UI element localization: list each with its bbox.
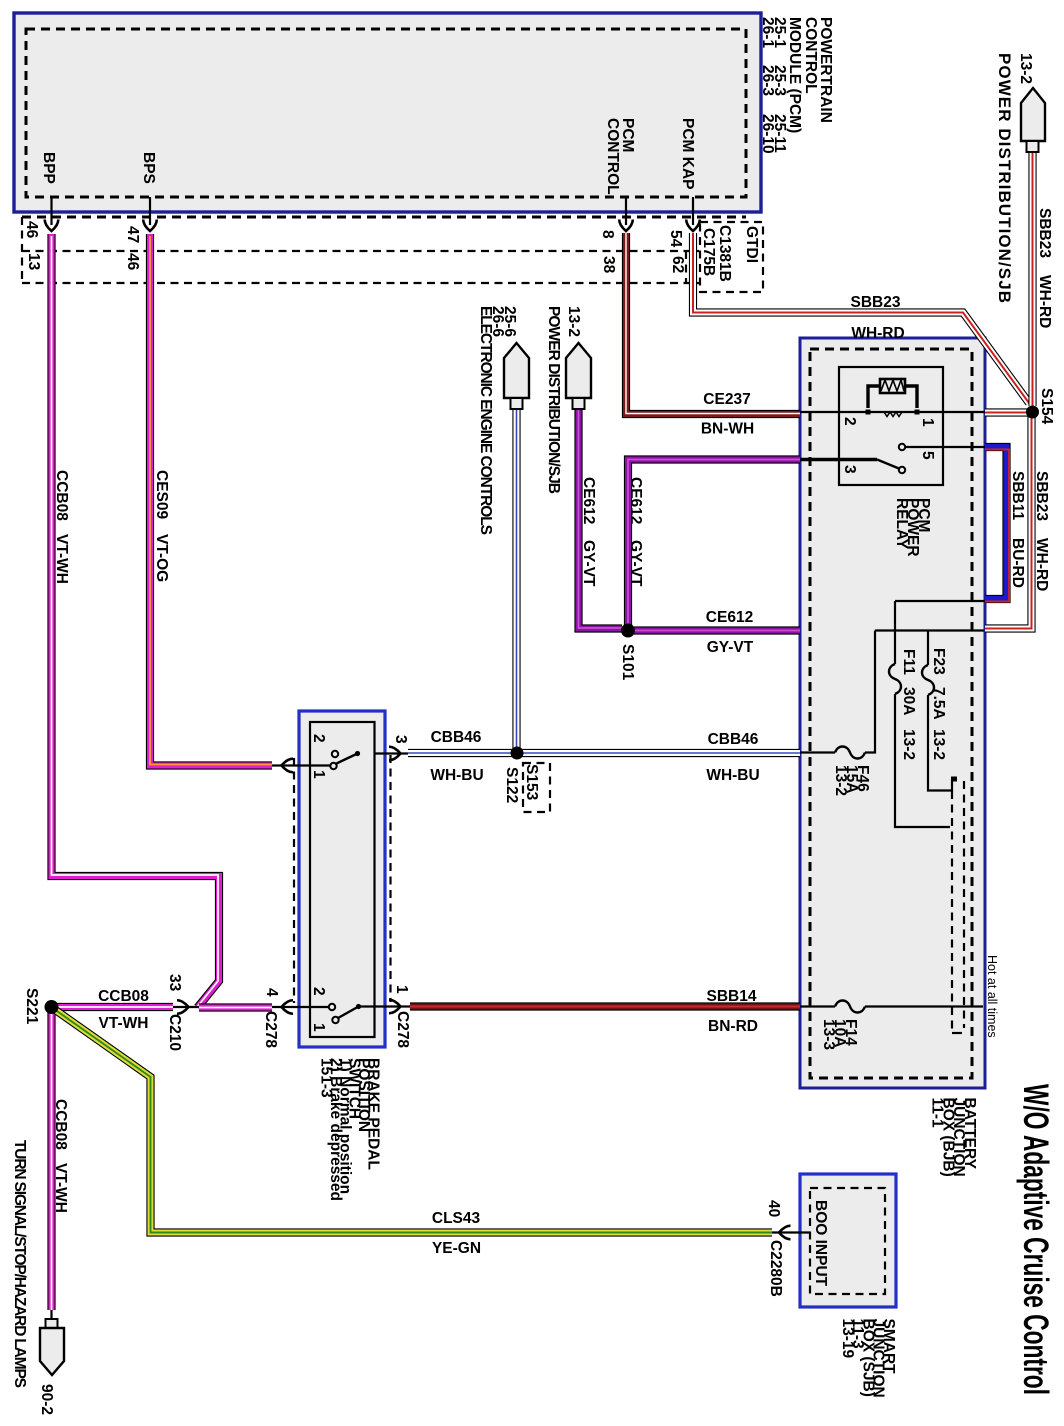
brake switch top contact pin 2 <box>330 751 360 769</box>
svg-text:PCM KAP: PCM KAP <box>679 118 696 189</box>
label BOO INPUT <box>812 1200 829 1287</box>
svg-text:46: 46 <box>124 253 141 271</box>
svg-text:BPS: BPS <box>140 152 157 184</box>
fuse F46 input line <box>800 751 835 753</box>
off-page arrow POWER DISTRIBUTION/SJB mid <box>566 343 591 409</box>
label 90-2 <box>38 1384 55 1415</box>
label 13-2 top right <box>1017 53 1034 84</box>
label 25-6 <box>501 306 518 337</box>
svg-text:13-2: 13-2 <box>1017 53 1034 84</box>
BJB internal bus SBB11 row to fuse F11 <box>895 601 985 664</box>
svg-text:CBB46: CBB46 <box>431 729 482 746</box>
svg-text:C1381B: C1381B <box>716 225 733 282</box>
label CE612 GY-VT right riser <box>627 477 644 587</box>
svg-text:CE237: CE237 <box>703 391 750 408</box>
svg-text:1: 1 <box>919 418 936 427</box>
pin number 46 <box>23 221 40 239</box>
svg-text:33: 33 <box>166 974 183 992</box>
svg-text:13: 13 <box>25 253 42 271</box>
wire SBB23 WH-RD S154 down into BJB <box>985 415 1032 629</box>
svg-text:C2280B: C2280B <box>767 1240 784 1297</box>
svg-text:POWER DISTRIBUTION/SJB: POWER DISTRIBUTION/SJB <box>995 53 1014 303</box>
connector C278 right <box>394 1011 411 1048</box>
splice S153 <box>511 747 524 760</box>
inline connector dashed line C1381B top <box>22 216 746 219</box>
label CES09 VT-OG riser <box>153 470 170 582</box>
svg-text:1: 1 <box>310 770 327 779</box>
pin number 13 <box>25 253 42 271</box>
svg-text:BOO INPUT: BOO INPUT <box>812 1200 829 1287</box>
svg-text:SBB23: SBB23 <box>851 294 901 311</box>
label 26-6 <box>489 306 506 337</box>
svg-text:2: 2 <box>841 417 858 426</box>
label CCB08 VT-WH horizontal <box>98 988 149 1032</box>
connector C2280B <box>767 1240 784 1297</box>
label CBB46 WH-BU right <box>706 731 759 784</box>
svg-text:8: 8 <box>599 230 616 239</box>
svg-text:C278: C278 <box>262 1011 279 1048</box>
pin number 40 <box>765 1200 782 1217</box>
label S101 <box>619 644 636 681</box>
svg-text:13-2: 13-2 <box>832 765 849 796</box>
pin name PCM KAP <box>679 118 696 189</box>
label PCM block <box>759 17 834 154</box>
switch pin number 2 top <box>310 734 327 743</box>
wire CCB08 VT-WH S221 to C210 <box>52 1003 200 1011</box>
pin number 38 <box>600 256 617 274</box>
svg-text:13-2: 13-2 <box>565 306 582 337</box>
switch pin number 1 top <box>310 770 327 779</box>
svg-text:Hot at all times: Hot at all times <box>985 955 999 1038</box>
svg-text:WH-RD: WH-RD <box>851 325 904 342</box>
svg-text:11-1: 11-1 <box>929 1098 946 1129</box>
svg-text:3: 3 <box>392 735 409 744</box>
label S153 <box>523 764 540 801</box>
pin number 46 C1381B <box>124 253 141 271</box>
pin number 33 C210 <box>166 974 183 992</box>
connector arrow C278 pin 1 <box>389 1000 401 1014</box>
pin arrow PCM CONTROL 8 <box>619 220 633 232</box>
relay pin number 1 <box>919 418 936 427</box>
svg-text:1: 1 <box>310 1023 327 1032</box>
connector arrow switch pin 2 <box>282 759 294 773</box>
pin number 8 <box>599 230 616 239</box>
wire CE612 GY-VT S101 right into BJB <box>634 626 800 634</box>
splice S154 <box>1026 406 1039 419</box>
pin arrow BPP 46 <box>45 220 59 232</box>
svg-text:40: 40 <box>765 1200 782 1217</box>
label S221 <box>23 988 40 1025</box>
brake switch bottom contact pin 1 <box>329 1004 361 1023</box>
svg-text:CE612: CE612 <box>706 609 753 626</box>
wire SBB23 WH-RD from PCM KAP pin to S154 <box>693 197 1029 403</box>
label SBB14 BN-RD horizontal <box>707 988 758 1035</box>
label fuse F14 10A 13-3 <box>820 1019 859 1050</box>
wire CCB08 VT-WH S221 down to turn signal lamps <box>47 1007 55 1319</box>
relay coil <box>866 379 920 417</box>
fuse F23 drop <box>927 631 929 666</box>
pin number 62 <box>669 256 686 273</box>
svg-text:S153: S153 <box>523 764 540 801</box>
switch pin number 2 bottom <box>310 987 327 996</box>
label BATTERY JUNCTION BOX (BJB) 11-1 <box>929 1098 978 1177</box>
svg-text:2: 2 <box>310 987 327 996</box>
switch connector dashed line right C278 <box>389 755 391 1002</box>
svg-text:38: 38 <box>600 256 617 274</box>
label S122 <box>503 767 520 803</box>
label POWER DISTRIBUTION/SJB mid <box>545 306 562 494</box>
svg-text:3: 3 <box>841 465 858 474</box>
svg-text:POWER DISTRIBUTION/SJB: POWER DISTRIBUTION/SJB <box>545 306 562 494</box>
powertrain control module (PCM) box <box>14 13 761 212</box>
pin number 47 <box>124 226 141 243</box>
brake pedal position switch box <box>299 711 385 1047</box>
label TURN SIGNAL/STOP/HAZARD LAMPS <box>11 1140 28 1388</box>
label CE237 BN-WH <box>701 391 754 438</box>
relay pin 5 contact and line <box>899 444 985 450</box>
label CCB08 VT-WH lower riser <box>52 1099 69 1213</box>
pin arrow BPS 47 <box>143 220 157 232</box>
splice S221 <box>45 1000 59 1014</box>
svg-text:C175B: C175B <box>700 228 717 276</box>
svg-text:CLS43: CLS43 <box>432 1210 481 1227</box>
svg-text:CONTROL: CONTROL <box>604 118 621 195</box>
relay pin number 2 <box>841 417 858 426</box>
svg-text:WH-BU: WH-BU <box>430 767 483 784</box>
svg-text:YE-GN: YE-GN <box>432 1240 481 1257</box>
pin name BPS <box>140 152 157 184</box>
pin number 4 C278 <box>263 988 280 997</box>
label CE612 GY-VT horizontal <box>706 609 754 656</box>
PCM power relay box <box>839 367 943 485</box>
label CBB46 WH-BU left <box>430 729 483 784</box>
inline connector dashed strip C1381B/C175B <box>22 217 699 283</box>
svg-text:CONTROL: CONTROL <box>802 17 819 94</box>
label BRAKE PEDAL POSITION SWITCH <box>318 1058 382 1201</box>
svg-text:F1130A13-2: F1130A13-2 <box>900 649 917 760</box>
smart junction box BOO INPUT <box>800 1174 896 1307</box>
svg-text:F237.5A13-2: F237.5A13-2 <box>930 648 947 760</box>
label fuse F23 7.5A 13-2 <box>930 648 947 760</box>
wire CCB08 VT-WH from PCM BPP pin <box>52 197 220 1008</box>
connector C210 <box>166 1014 183 1051</box>
dashed corridor hot at all times <box>952 781 964 1033</box>
relay pin number 3 <box>841 465 858 474</box>
fuse F46 15A <box>835 747 865 759</box>
label Hot at all times <box>985 955 999 1038</box>
connector arrow C2280B pin 40 <box>779 1226 791 1240</box>
wire CBB46 WH-BU switch pin 3 to BJB F46 <box>375 752 800 755</box>
svg-text:VT-WH: VT-WH <box>99 1015 149 1032</box>
wire SBB11 BU-RD relay pin 5 loop <box>985 447 1009 602</box>
svg-text:GY-VT: GY-VT <box>707 639 754 656</box>
pin name PCM CONTROL <box>604 118 636 195</box>
off-page arrow ELECTRONIC ENGINE CONTROLS <box>504 343 529 409</box>
svg-text:46: 46 <box>23 221 40 239</box>
fuse F11 output <box>895 694 950 827</box>
svg-text:13-19: 13-19 <box>839 1319 856 1359</box>
label fuse F46 15A 13-2 <box>832 765 871 796</box>
label CLS43 YE-GN horizontal <box>432 1210 481 1257</box>
svg-text:BN-WH: BN-WH <box>701 421 754 438</box>
svg-text:ELECTRONIC ENGINE CONTROLS: ELECTRONIC ENGINE CONTROLS <box>477 306 494 535</box>
label 13-2 mid pentagon <box>565 306 582 337</box>
label fuse F11 30A 13-2 <box>900 649 917 760</box>
svg-text:C210: C210 <box>166 1014 183 1051</box>
svg-text:26-126-326-10: 26-126-326-10 <box>759 17 776 154</box>
relay coil line pins 2 and 1 <box>800 411 985 413</box>
svg-text:SBB14: SBB14 <box>707 988 757 1005</box>
fuse F23 output with hook <box>928 695 957 791</box>
BJB internal bus S154 row y630 <box>875 629 984 631</box>
svg-text:62: 62 <box>669 256 686 273</box>
wire CBB46 WH-BU pentagon down to S153 <box>512 409 520 750</box>
off-page arrow TURN SIGNAL/STOP/HAZARD LAMPS <box>40 1319 64 1375</box>
wire CE237 BN-WH from PCM CONTROL pin to relay coil <box>626 197 800 414</box>
pin number 54 <box>667 230 684 248</box>
wire CES09 VT-OG from PCM BPS pin to switch pin 2 <box>150 197 330 766</box>
title W/O Adaptive Cruise Control <box>1016 1084 1055 1395</box>
svg-text:CCB08: CCB08 <box>98 988 149 1005</box>
svg-text:90-2: 90-2 <box>38 1384 55 1415</box>
splice S153 dashed box <box>523 763 550 812</box>
wire SBB14 BN-RD switch pin 1 to BJB F14 <box>359 1005 801 1007</box>
svg-text:BN-RD: BN-RD <box>708 1018 758 1035</box>
svg-text:5: 5 <box>919 451 936 460</box>
svg-text:BPP: BPP <box>40 152 57 184</box>
svg-text:151-3: 151-3 <box>318 1058 335 1098</box>
splice S101 <box>621 624 635 638</box>
svg-text:CBB46: CBB46 <box>708 731 759 748</box>
fuse F46 output riser <box>865 631 875 753</box>
battery junction box (BJB) <box>800 338 985 1088</box>
pin number 1 C278 right <box>393 985 410 994</box>
fuse F14 input line <box>800 1005 835 1007</box>
svg-text:S101: S101 <box>619 644 636 681</box>
wire WH-RD relay pin1 row to S154 <box>985 408 1029 416</box>
svg-text:WH-BU: WH-BU <box>706 767 759 784</box>
fuse F23 7.5A <box>922 665 934 695</box>
svg-text:W/O Adaptive Cruise Control: W/O Adaptive Cruise Control <box>1016 1084 1055 1395</box>
pin arrow PCM KAP 54 <box>686 220 700 232</box>
switch pin number 1 bottom <box>310 1023 327 1032</box>
svg-text:GTDI: GTDI <box>743 226 760 263</box>
wire CE612 GY-VT pentagon to S101 <box>579 409 623 629</box>
connector arrow switch pin 3 <box>389 747 401 761</box>
svg-text:54: 54 <box>667 230 684 248</box>
svg-text:47: 47 <box>124 226 141 243</box>
fuse F11 30A <box>889 664 901 694</box>
label ELECTRONIC ENGINE CONTROLS <box>477 306 494 535</box>
label SBB23 WH-RD lower <box>1033 471 1050 591</box>
fuse F14 10A <box>835 1001 865 1013</box>
fuse F14 output hot at all times <box>865 1005 983 1007</box>
connector label box GTDI C1381B C175B <box>700 222 763 292</box>
svg-text:C278: C278 <box>394 1011 411 1048</box>
svg-text:2: 2 <box>310 734 327 743</box>
label S154 <box>1038 388 1055 425</box>
svg-text:1: 1 <box>393 985 410 994</box>
label SMART JUNCTION BOX (SJB) 11-3 13-19 <box>839 1319 897 1398</box>
relay pin 3 movable arm <box>800 460 905 474</box>
svg-text:S221: S221 <box>23 988 40 1025</box>
label SBB11 BU-RD <box>1009 471 1026 588</box>
label SBB23 WH-RD upper <box>1036 208 1053 328</box>
switch pin number 3 <box>392 735 409 744</box>
label CCB08 VT-WH riser <box>53 470 70 584</box>
wire CCB08 VT-WH C210 to C278 <box>199 1003 329 1012</box>
pin name BPP <box>40 152 57 184</box>
svg-text:TURN SIGNAL/STOP/HAZARD LAMPS: TURN SIGNAL/STOP/HAZARD LAMPS <box>11 1140 28 1388</box>
wire SBB23 WH-RD pentagon top right down to S154 <box>1028 152 1036 406</box>
off-page arrow POWER DISTRIBUTION/SJB top right <box>1021 88 1045 152</box>
svg-text:13-3: 13-3 <box>820 1019 837 1050</box>
label PCM POWER RELAY <box>893 498 932 557</box>
svg-text:S154: S154 <box>1038 388 1055 425</box>
label POWER DISTRIBUTION/SJB top right <box>995 53 1014 303</box>
connector arrow C278 pin 4 <box>282 1000 294 1014</box>
relay pin number 5 <box>919 451 936 460</box>
connector arrow C210 <box>177 1000 189 1014</box>
wire CLS43 YE-GN S221 to BOO INPUT <box>54 1009 810 1233</box>
svg-text:RELAY: RELAY <box>893 498 910 550</box>
svg-text:S122: S122 <box>503 767 520 803</box>
switch connector dashed line left C278 <box>293 758 295 1003</box>
svg-text:4: 4 <box>263 988 280 997</box>
wire CE612 GY-VT S101 up to relay pin 3 <box>628 460 800 626</box>
label SBB23 WH-RD horizontal <box>851 294 905 342</box>
label CE612 GY-VT left riser <box>580 477 597 587</box>
connector C278 left <box>262 1011 279 1048</box>
